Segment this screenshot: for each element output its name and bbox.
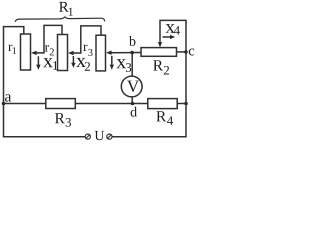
svg-text:1: 1	[12, 46, 17, 57]
svg-text:V: V	[127, 77, 140, 96]
svg-text:3: 3	[65, 114, 72, 129]
svg-text:3: 3	[125, 60, 132, 75]
svg-text:b: b	[129, 35, 136, 50]
svg-text:1: 1	[68, 5, 74, 19]
svg-text:R: R	[153, 58, 164, 75]
svg-text:R: R	[156, 108, 167, 125]
svg-text:c: c	[188, 43, 194, 59]
svg-text:R: R	[54, 110, 65, 127]
svg-text:U: U	[94, 129, 104, 144]
svg-text:4: 4	[174, 23, 181, 38]
svg-text:a: a	[4, 89, 11, 106]
svg-text:1: 1	[52, 58, 59, 73]
svg-text:2: 2	[163, 63, 170, 78]
svg-text:2: 2	[84, 59, 91, 74]
svg-text:4: 4	[167, 113, 174, 128]
svg-text:3: 3	[88, 48, 93, 59]
svg-text:d: d	[130, 106, 137, 121]
